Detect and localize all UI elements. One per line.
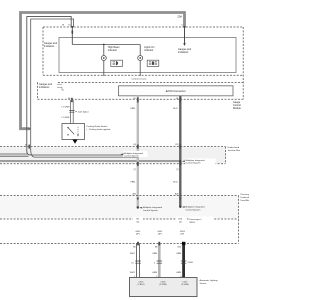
junction square dark wire y243.5: [182, 242, 185, 245]
svg-text:(2 GRN): (2 GRN): [181, 284, 189, 286]
label multiplex integrated control system (upper B): [185, 158, 216, 164]
node dark wire end: [179, 206, 181, 208]
svg-text:Joint Splice: Joint Splice: [78, 111, 90, 114]
tick crossing light wire y163.8: [137, 162, 139, 166]
svg-text:GRN: GRN: [176, 253, 181, 255]
wire GRN light bottom: [158, 244, 161, 278]
svg-text:(8): (8): [134, 144, 137, 146]
junction box interior tint: [0, 147, 226, 163]
wire LT GRN double-line rail (inner line): [31, 19, 137, 157]
svg-text:WHT: WHT: [130, 253, 136, 255]
svg-text:(2 GRN): (2 GRN): [159, 284, 167, 286]
svg-text:Indicator: Indicator: [108, 49, 117, 52]
svg-text:Indicators: Indicators: [39, 86, 50, 89]
tick crossing at y100 dark wire: [179, 98, 181, 103]
label multiplex integrated control system (lower A): [139, 207, 142, 209]
svg-text:G503: G503: [180, 231, 186, 233]
svg-text:WHT: WHT: [130, 272, 136, 274]
svg-text:Indicators: Indicators: [178, 51, 189, 54]
box indicator panel (solid inner box): [59, 38, 236, 73]
svg-text:(7): (7): [134, 169, 137, 171]
svg-text:E/CM Connector: E/CM Connector: [166, 89, 186, 93]
svg-text:Passenger's: Passenger's: [190, 218, 203, 221]
svg-text:MICU: MICU: [190, 222, 196, 224]
pin labels on MICU divider: [133, 217, 143, 224]
svg-text:20A: 20A: [177, 15, 182, 19]
switch contact inside: [67, 127, 68, 128]
box E/CM connector: [119, 86, 234, 96]
svg-text:G502: G502: [157, 231, 163, 233]
svg-text:GRN: GRN: [176, 272, 181, 274]
wire entry into panel at x184 with arrow: [184, 27, 186, 44]
svg-text:GRN: GRN: [152, 272, 157, 274]
svg-text:Fuse/Relay Box: Fuse/Relay Box: [241, 200, 250, 202]
wire dark gray BLU vertical: [179, 96, 181, 207]
svg-text:Automatic Lighting: Automatic Lighting: [200, 279, 219, 282]
node at x72 on cluster top edge: [71, 26, 73, 28]
svg-text:Under-dash: Under-dash: [241, 196, 250, 199]
icon box lights on: [147, 60, 159, 66]
svg-text:Junction Box: Junction Box: [228, 149, 241, 152]
tick crossing at y100 parking wire: [71, 98, 73, 102]
label multiplex integrated control system (lower B): [182, 206, 185, 208]
box parking brake switch: [62, 124, 85, 140]
lamp high beam indicator: [101, 56, 106, 61]
tick crossing rail y146.6: [28, 145, 30, 149]
svg-text:Parking Brake Switch: Parking Brake Switch: [87, 125, 109, 128]
svg-text:(7): (7): [176, 169, 179, 171]
lamp lights on indicator: [138, 56, 143, 61]
svg-text:Module: Module: [233, 107, 242, 110]
tick on feed wire below dashed: [71, 31, 73, 34]
node bus to lamp1: [103, 44, 105, 46]
ground under switch: [72, 140, 77, 144]
node light wire end: [137, 206, 139, 208]
tick crossing light wire y146.6: [137, 145, 139, 149]
svg-text:Sensor: Sensor: [200, 282, 207, 285]
wire thick gray feed (top and left rails): [21, 13, 185, 129]
svg-text:Passenger's: Passenger's: [241, 193, 250, 196]
svg-text:BLU: BLU: [173, 108, 178, 110]
svg-text:Indicator: Indicator: [144, 49, 153, 52]
label multiplex integrated control system (upper A): [123, 151, 148, 157]
splice joint on parking wire: [69, 111, 74, 113]
tick crossing at y100 light wire: [137, 98, 139, 103]
wire multiplex single to dark wire: [0, 161, 180, 163]
svg-text:Indicators: Indicators: [44, 45, 55, 48]
svg-text:Multiplex Integrated: Multiplex Integrated: [143, 206, 163, 209]
connector C406 crossings at y262: [135, 261, 141, 263]
svg-text:( : Parking brake applied: ( : Parking brake applied: [87, 128, 111, 131]
svg-text:Under-hood: Under-hood: [228, 146, 240, 149]
svg-text:(2 BLU): (2 BLU): [138, 284, 145, 286]
node rail to light wire: [136, 155, 138, 157]
box automatic lighting sensor: [130, 278, 198, 297]
tick crossing dark wire y146.6: [179, 145, 181, 149]
arrow entry dark wire into fuse box: [179, 198, 181, 201]
svg-text:(2P): (2P): [136, 234, 140, 236]
svg-text:(2P): (2P): [158, 234, 162, 236]
dashed box under-dash junction (y146-163): [0, 147, 226, 164]
pointer lines from label to connector box: [57, 84, 64, 90]
svg-text:Control System: Control System: [143, 209, 158, 212]
dashed box gauges and indicators (cluster, top): [43, 27, 243, 99]
svg-text:BLU: BLU: [173, 182, 178, 184]
label passenger's MICU: [189, 217, 214, 225]
wire WHT double bottom: [137, 244, 140, 278]
tick below lamp wire 1: [103, 73, 105, 77]
tick crossing GRN y243.5: [158, 242, 160, 246]
node junction of thick wire into rail: [28, 128, 30, 130]
label joint splice: [75, 110, 77, 112]
svg-text:LT GRN: LT GRN: [62, 117, 70, 119]
internal bus to lamps: [72, 44, 140, 46]
svg-text:ORN: ORN: [130, 108, 135, 110]
node rail to dark wire: [179, 160, 181, 162]
dashed box passenger under-dash fuse/relay (y195.5-243.5): [0, 196, 239, 244]
label gauges and indicators (control module, lower-left): [38, 82, 57, 89]
wire light gray ORN vertical: [137, 96, 139, 208]
svg-text:ORN: ORN: [130, 182, 135, 184]
wire lamp branch 1: [103, 45, 105, 73]
svg-text:Control Circuits: Control Circuits: [132, 78, 148, 81]
wire LT GRN double to parking brake switch: [71, 100, 74, 124]
wire LT GRN double-line rail (top-left, outer line): [27, 17, 137, 155]
tick crossing WHT y243.5: [137, 242, 139, 246]
tick crossing dark wire y163.8: [179, 162, 181, 166]
wire GRN dark bottom: [182, 244, 185, 278]
svg-text:Control System: Control System: [124, 155, 139, 158]
wire LT GRN horizontal pair extension to page left edge: [0, 154, 29, 156]
svg-text:G501: G501: [135, 231, 141, 233]
svg-text:Multiplex Integrated: Multiplex Integrated: [185, 206, 205, 209]
svg-text:LT GRN: LT GRN: [62, 107, 70, 109]
fuse/relay box interior tint: [0, 196, 239, 218]
svg-text:(4): (4): [179, 221, 182, 223]
svg-text:(12): (12): [175, 144, 179, 146]
arrow entry light wire into fuse box: [137, 198, 139, 201]
icon box high beam: [111, 60, 123, 66]
svg-text:GRN: GRN: [152, 253, 157, 255]
tick below lamp wire 2: [139, 73, 141, 77]
node at x184 on cluster top edge: [184, 26, 186, 28]
svg-text:C406: C406: [188, 262, 194, 264]
svg-text:(4): (4): [137, 221, 140, 223]
svg-text:(2P): (2P): [180, 234, 184, 236]
svg-text:Multiplex Integrated: Multiplex Integrated: [124, 152, 144, 155]
svg-text:Control System: Control System: [186, 162, 201, 165]
svg-text:Control System: Control System: [185, 208, 200, 211]
wire feed x72 down to internal bus: [71, 27, 73, 45]
dashed box gauge control module (lower): [38, 83, 244, 100]
svg-text:Multiplex Integrated: Multiplex Integrated: [186, 159, 206, 162]
wire lamp branch 2: [139, 45, 141, 73]
